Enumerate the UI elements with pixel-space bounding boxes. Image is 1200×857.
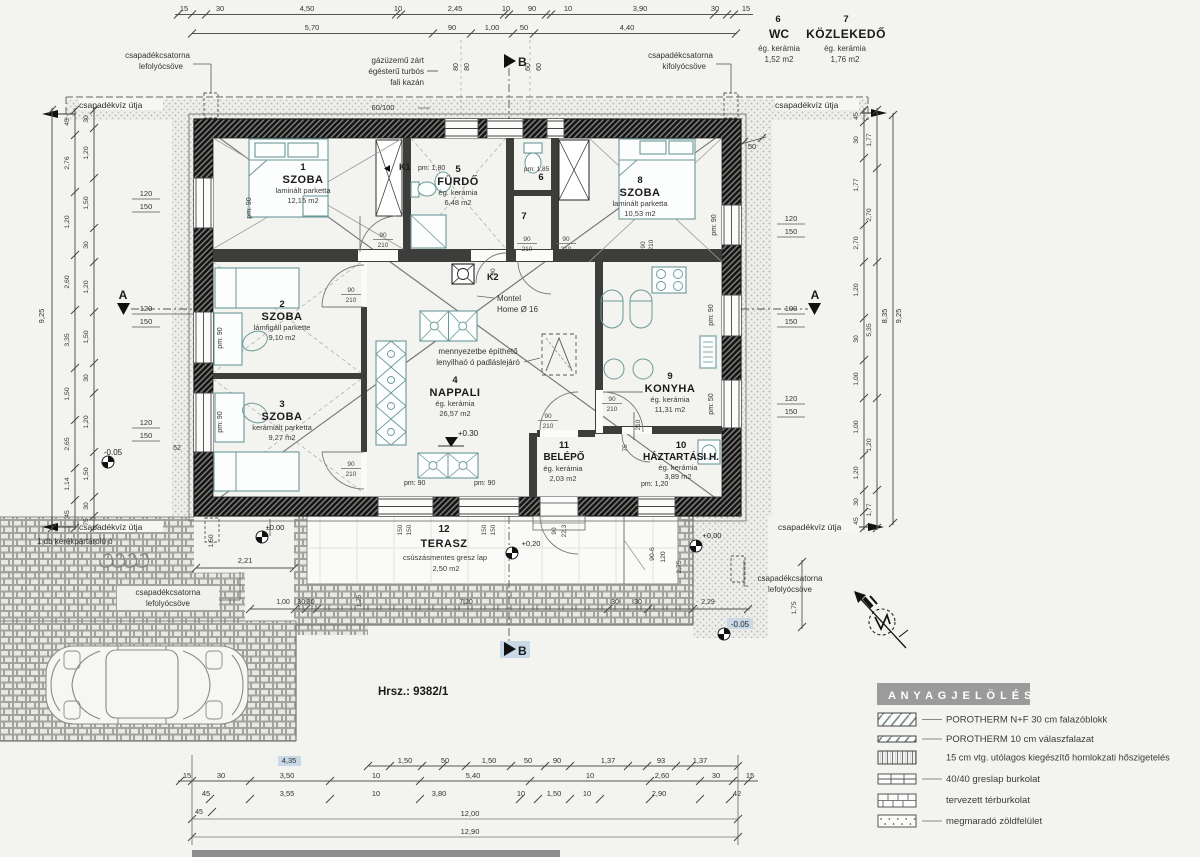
svg-text:120: 120 (785, 214, 798, 223)
svg-text:6: 6 (775, 14, 780, 25)
svg-text:±0.00: ±0.00 (266, 523, 285, 532)
svg-text:csapadékvíz útja: csapadékvíz útja (778, 522, 842, 532)
svg-text:12,90: 12,90 (461, 827, 480, 836)
svg-text:6: 6 (538, 172, 543, 183)
svg-text:+0,20: +0,20 (522, 539, 541, 548)
svg-text:csapadékcsatorna: csapadékcsatorna (125, 51, 190, 60)
svg-text:15: 15 (180, 4, 188, 13)
svg-text:120: 120 (660, 551, 667, 563)
svg-text:2,60: 2,60 (64, 275, 71, 288)
svg-text:50: 50 (520, 23, 528, 32)
svg-text:1,20: 1,20 (83, 280, 90, 293)
svg-text:45: 45 (853, 517, 860, 525)
svg-text:90: 90 (640, 241, 647, 249)
svg-text:csapadékcsatorna: csapadékcsatorna (648, 51, 713, 60)
svg-text:SZOBA: SZOBA (262, 311, 303, 323)
svg-text:8,35: 8,35 (880, 309, 889, 324)
svg-text:1,00: 1,00 (853, 372, 860, 385)
svg-text:210: 210 (648, 239, 655, 250)
svg-text:SZOBA: SZOBA (620, 187, 661, 199)
svg-text:9,10 m2: 9,10 m2 (268, 333, 295, 342)
svg-text:2,50 m2: 2,50 m2 (432, 564, 459, 573)
svg-text:4,40: 4,40 (620, 23, 635, 32)
svg-text:3,80: 3,80 (432, 789, 447, 798)
svg-text:1,00: 1,00 (853, 420, 860, 433)
svg-text:ég. kerámia: ég. kerámia (435, 399, 475, 408)
svg-text:150: 150 (785, 317, 798, 326)
svg-text:15: 15 (746, 771, 754, 780)
svg-text:lenyilhaó ó padláslejáró: lenyilhaó ó padláslejáró (436, 358, 520, 367)
svg-text:30: 30 (83, 115, 90, 123)
svg-text:150: 150 (481, 524, 488, 535)
svg-text:1,77: 1,77 (866, 503, 873, 516)
svg-text:90: 90 (347, 287, 355, 294)
svg-text:megmaradó zöldfelület: megmaradó zöldfelület (946, 816, 1042, 827)
svg-text:pm: 90: pm: 90 (404, 480, 426, 487)
svg-text:7: 7 (843, 14, 848, 25)
svg-text:26,57 m2: 26,57 m2 (439, 409, 470, 418)
svg-text:150: 150 (406, 524, 413, 535)
svg-text:30: 30 (853, 136, 860, 144)
svg-text:90: 90 (553, 756, 561, 765)
svg-text:150: 150 (785, 407, 798, 416)
svg-text:pm: 90: pm: 90 (711, 214, 718, 236)
svg-text:120: 120 (785, 394, 798, 403)
svg-text:2,90: 2,90 (652, 789, 667, 798)
svg-text:30|30: 30|30 (297, 599, 314, 606)
svg-text:93: 93 (657, 756, 665, 765)
svg-text:POROTHERM N+F 30 cm falazóblo: POROTHERM N+F 30 cm falazóblokk (946, 715, 1108, 726)
svg-text:B: B (518, 644, 527, 658)
svg-text:30: 30 (216, 4, 224, 13)
svg-text:150: 150 (490, 524, 497, 535)
svg-text:2,65: 2,65 (64, 437, 71, 450)
svg-text:NAPPALI: NAPPALI (430, 387, 481, 399)
svg-text:6,48 m2: 6,48 m2 (444, 198, 471, 207)
svg-text:+0,00: +0,00 (703, 531, 722, 540)
svg-text:ég. kerámia: ég. kerámia (758, 44, 800, 53)
svg-text:150: 150 (785, 227, 798, 236)
svg-text:2: 2 (279, 299, 284, 310)
svg-text:100: 100 (785, 304, 798, 313)
svg-text:7,20: 7,20 (459, 599, 473, 606)
svg-text:Montel: Montel (497, 294, 521, 303)
svg-text:1,00: 1,00 (485, 23, 500, 32)
svg-text:pm: 90: pm: 90 (217, 327, 224, 349)
svg-text:1,75: 1,75 (791, 601, 798, 614)
svg-text:pm: 90: pm: 90 (246, 197, 253, 219)
svg-text:KONYHA: KONYHA (645, 383, 696, 395)
svg-text:4,50: 4,50 (300, 4, 315, 13)
svg-text:1,37: 1,37 (693, 756, 708, 765)
svg-text:2,60: 2,60 (655, 771, 670, 780)
svg-text:45: 45 (853, 112, 860, 120)
svg-text:1,50: 1,50 (547, 789, 562, 798)
svg-text:10: 10 (394, 4, 402, 13)
svg-text:30: 30 (853, 498, 860, 506)
svg-text:52: 52 (173, 445, 181, 452)
svg-text:90: 90 (544, 413, 552, 420)
svg-text:11: 11 (559, 440, 570, 451)
svg-text:30: 30 (711, 4, 719, 13)
svg-text:FÜRDŐ: FÜRDŐ (437, 175, 479, 188)
svg-text:TERASZ: TERASZ (421, 538, 468, 550)
svg-text:210: 210 (346, 471, 357, 478)
svg-text:pm: 90: pm: 90 (708, 304, 715, 326)
svg-text:1,37: 1,37 (601, 756, 616, 765)
svg-text:1,00: 1,00 (276, 599, 290, 606)
svg-text:Hrsz.: 9382/1: Hrsz.: 9382/1 (378, 686, 449, 698)
svg-text:1,20: 1,20 (83, 146, 90, 159)
svg-text:K1: K1 (399, 162, 411, 172)
svg-text:ég. kerámia: ég. kerámia (824, 44, 866, 53)
svg-text:210: 210 (346, 297, 357, 304)
svg-text:150: 150 (140, 317, 153, 326)
svg-text:mennyezetbe építhető: mennyezetbe építhető (438, 347, 518, 356)
svg-text:-0.05: -0.05 (731, 620, 750, 629)
svg-text:30: 30 (217, 771, 225, 780)
svg-text:12: 12 (438, 524, 450, 535)
svg-text:5,40: 5,40 (466, 771, 481, 780)
svg-text:90: 90 (490, 268, 497, 276)
svg-text:csapadékvíz útja: csapadékvíz útja (775, 100, 839, 110)
svg-text:9,27 m2: 9,27 m2 (268, 433, 295, 442)
svg-text:1 db kerékpártároló ó: 1 db kerékpártároló ó (37, 537, 113, 546)
svg-text:ég. kerámia: ég. kerámia (543, 464, 583, 473)
svg-text:1,20: 1,20 (866, 438, 873, 451)
svg-text:1,50: 1,50 (83, 196, 90, 209)
svg-text:1,50: 1,50 (398, 756, 413, 765)
svg-text:1,77: 1,77 (853, 178, 860, 191)
svg-text:5: 5 (455, 164, 461, 175)
svg-text:12,15 m2: 12,15 m2 (287, 196, 318, 205)
svg-text:csapadékvíz útja: csapadékvíz útja (79, 100, 143, 110)
svg-text:3,55: 3,55 (280, 789, 295, 798)
svg-text:50: 50 (524, 756, 532, 765)
svg-text:A: A (811, 288, 820, 302)
svg-text:pm: 1,80: pm: 1,80 (418, 165, 445, 172)
svg-text:lefolyócsöve: lefolyócsöve (139, 62, 184, 71)
svg-text:csúszásmentes gresz lap: csúszásmentes gresz lap (403, 553, 487, 562)
svg-text:3,90: 3,90 (633, 4, 648, 13)
svg-text:15: 15 (183, 771, 191, 780)
svg-text:3,50: 3,50 (280, 771, 295, 780)
svg-text:SZOBA: SZOBA (283, 174, 324, 186)
svg-text:30: 30 (83, 374, 90, 382)
svg-text:lámfigáll parkette: lámfigáll parkette (254, 323, 311, 332)
svg-text:12,00: 12,00 (461, 809, 480, 818)
svg-text:kifolyócsöve: kifolyócsöve (662, 62, 706, 71)
svg-text:1,75: 1,75 (356, 594, 363, 607)
svg-text:BELÉPŐ: BELÉPŐ (543, 450, 584, 463)
svg-text:45: 45 (195, 809, 203, 816)
svg-text:90: 90 (608, 396, 616, 403)
svg-text:lefolyócsöve: lefolyócsöve (768, 585, 813, 594)
svg-text:5,35: 5,35 (866, 323, 873, 336)
svg-text:210: 210 (561, 246, 572, 253)
svg-text:90-6: 90-6 (649, 547, 656, 561)
svg-text:2,70: 2,70 (866, 208, 873, 221)
svg-text:+0.30: +0.30 (458, 429, 479, 438)
svg-text:9,25: 9,25 (894, 309, 903, 324)
svg-text:1,20: 1,20 (853, 283, 860, 296)
svg-text:3,35: 3,35 (64, 333, 71, 346)
svg-text:4,35: 4,35 (282, 756, 297, 765)
svg-text:pm: 90: pm: 90 (217, 411, 224, 433)
svg-text:csapadékcsatorna: csapadékcsatorna (136, 588, 201, 597)
svg-text:2,70: 2,70 (853, 236, 860, 249)
svg-text:1,76 m2: 1,76 m2 (831, 55, 860, 64)
svg-text:90: 90 (523, 236, 531, 243)
svg-text:10: 10 (372, 789, 380, 798)
svg-text:1,50: 1,50 (482, 756, 497, 765)
svg-text:45: 45 (202, 789, 210, 798)
svg-text:2,03 m2: 2,03 m2 (549, 474, 576, 483)
svg-text:40/40 greslap burkolat: 40/40 greslap burkolat (946, 774, 1040, 785)
svg-text:2,75: 2,75 (676, 560, 683, 573)
svg-text:90: 90 (562, 236, 570, 243)
svg-text:50: 50 (748, 142, 756, 151)
svg-text:80: 80 (453, 63, 460, 71)
svg-text:4: 4 (452, 375, 458, 386)
svg-text:10: 10 (502, 4, 510, 13)
svg-text:15: 15 (742, 4, 750, 13)
svg-text:ég. kerámia: ég. kerámia (658, 463, 698, 472)
svg-text:10: 10 (372, 771, 380, 780)
svg-text:210: 210 (635, 419, 642, 430)
svg-text:150: 150 (140, 431, 153, 440)
svg-text:30: 30 (853, 335, 860, 343)
svg-text:1: 1 (300, 162, 306, 173)
svg-text:90: 90 (551, 527, 558, 535)
svg-text:gázüzemű zárt: gázüzemű zárt (372, 56, 425, 65)
svg-text:120: 120 (140, 304, 153, 313)
svg-text:8: 8 (637, 175, 642, 186)
svg-text:30: 30 (83, 502, 90, 510)
svg-text:pm: 90: pm: 90 (474, 480, 496, 487)
svg-text:pm: 1,20: pm: 1,20 (641, 481, 668, 488)
svg-text:WC: WC (769, 27, 789, 41)
svg-text:210: 210 (522, 246, 533, 253)
svg-text:210: 210 (607, 406, 618, 413)
svg-text:1,20: 1,20 (83, 415, 90, 428)
svg-text:90: 90 (347, 461, 355, 468)
svg-text:30: 30 (83, 241, 90, 249)
svg-text:11,31 m2: 11,31 m2 (655, 405, 686, 414)
svg-text:A N Y A G J E L Ö L É S: A N Y A G J E L Ö L É S (888, 689, 1032, 702)
svg-text:tervezett térburkolat: tervezett térburkolat (946, 795, 1030, 806)
svg-text:80: 80 (464, 63, 471, 71)
svg-text:3: 3 (279, 399, 284, 410)
svg-text:10: 10 (586, 771, 594, 780)
svg-text:50: 50 (441, 756, 449, 765)
svg-text:HÁZTARTÁSI H.: HÁZTARTÁSI H. (643, 450, 719, 463)
svg-text:laminált parketta: laminált parketta (612, 199, 668, 208)
svg-text:7: 7 (521, 211, 526, 222)
svg-text:POROTHERM 10 cm válaszfalazat: POROTHERM 10 cm válaszfalazat (946, 734, 1094, 745)
svg-text:5,70: 5,70 (305, 23, 320, 32)
svg-text:10: 10 (517, 789, 525, 798)
svg-text:A: A (119, 288, 128, 302)
svg-text:2,29: 2,29 (701, 599, 715, 606)
svg-text:1,50: 1,50 (83, 330, 90, 343)
svg-text:lefolyócsöve: lefolyócsöve (146, 599, 191, 608)
svg-text:1,52 m2: 1,52 m2 (765, 55, 794, 64)
svg-text:45: 45 (64, 118, 71, 126)
svg-text:1,14: 1,14 (64, 477, 71, 490)
svg-text:1,20: 1,20 (853, 466, 860, 479)
svg-text:30: 30 (712, 771, 720, 780)
svg-text:210: 210 (378, 242, 389, 249)
svg-text:SZOBA: SZOBA (262, 411, 303, 423)
svg-text:1,50: 1,50 (208, 534, 215, 547)
svg-text:1,20: 1,20 (64, 215, 71, 228)
svg-text:22,3: 22,3 (561, 524, 568, 537)
svg-text:2,21: 2,21 (238, 556, 253, 565)
svg-text:2,45: 2,45 (448, 4, 463, 13)
svg-text:10: 10 (676, 440, 687, 451)
svg-text:1,50: 1,50 (83, 467, 90, 480)
svg-text:60: 60 (536, 63, 543, 71)
svg-text:75: 75 (83, 518, 90, 526)
svg-text:2,76: 2,76 (64, 156, 71, 169)
svg-text:Home Ø 16: Home Ø 16 (497, 305, 538, 314)
svg-text:1,77: 1,77 (866, 133, 873, 146)
svg-text:ég. kerámia: ég. kerámia (438, 188, 478, 197)
svg-text:150: 150 (397, 524, 404, 535)
svg-text:42: 42 (733, 789, 741, 798)
svg-text:150: 150 (140, 202, 153, 211)
svg-text:90: 90 (448, 23, 456, 32)
svg-text:csapadékcsatorna: csapadékcsatorna (758, 574, 823, 583)
svg-text:60/100: 60/100 (372, 103, 395, 112)
svg-text:10: 10 (564, 4, 572, 13)
svg-text:45: 45 (64, 510, 71, 518)
svg-text:pm: 50: pm: 50 (708, 393, 715, 415)
svg-text:KÖZLEKEDŐ: KÖZLEKEDŐ (806, 26, 886, 41)
svg-text:10: 10 (583, 789, 591, 798)
svg-text:1,50: 1,50 (64, 387, 71, 400)
svg-text:9,25: 9,25 (37, 309, 46, 324)
svg-text:75: 75 (622, 444, 629, 452)
svg-text:pm: 1,85: pm: 1,85 (524, 166, 550, 173)
svg-text:120: 120 (140, 418, 153, 427)
svg-text:30: 30 (611, 599, 619, 606)
svg-text:kerámiált parketta: kerámiált parketta (252, 423, 312, 432)
svg-text:30: 30 (634, 599, 642, 606)
svg-text:ég. kerámia: ég. kerámia (650, 395, 690, 404)
svg-text:3,89 m2: 3,89 m2 (664, 472, 691, 481)
svg-text:égésterű turbós: égésterű turbós (368, 67, 424, 76)
svg-text:B: B (518, 55, 527, 69)
svg-text:15 cm vtg. utólagos kiegészítő: 15 cm vtg. utólagos kiegészítő homlokzat… (946, 753, 1170, 763)
svg-text:9: 9 (667, 371, 672, 382)
svg-text:laminált parketta: laminált parketta (275, 186, 331, 195)
svg-text:90: 90 (528, 4, 536, 13)
svg-text:10,53 m2: 10,53 m2 (624, 209, 655, 218)
svg-text:210: 210 (543, 423, 554, 430)
svg-text:fali kazán: fali kazán (390, 78, 424, 87)
svg-text:90: 90 (379, 232, 387, 239)
svg-text:120: 120 (140, 189, 153, 198)
